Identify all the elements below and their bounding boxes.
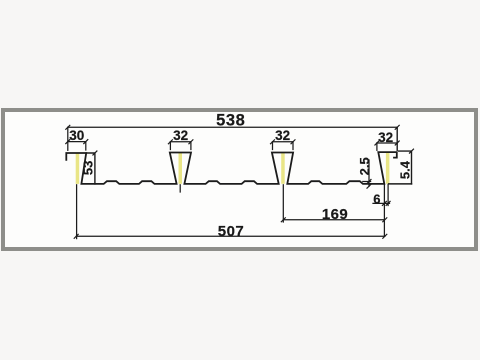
svg-text:507: 507 [218,223,245,240]
svg-text:5.4: 5.4 [397,160,412,179]
label 2.5 (rotated) [357,157,372,175]
dimension 538 line [68,126,397,128]
label 30 [69,128,84,143]
rib R4 yellow centerline [386,153,390,184]
svg-text:30: 30 [69,128,84,143]
photo frame box [1,108,478,252]
label 32 (rib R4) [378,130,393,145]
svg-text:169: 169 [322,206,348,223]
dimension 6 line [373,202,390,204]
label 53 (rotated) [81,161,96,175]
dimension 32 stubs (rib R2) [170,142,191,150]
dimension 30 line [68,141,86,143]
dimension 32 left stub (rib R4) [376,143,378,150]
dimension 538 right extension [396,127,398,150]
dimension 30 right stub [85,142,87,150]
dimension 32 line (rib R3) [273,141,294,143]
label 538 [216,111,245,129]
dimension 2.5 top tick [363,181,371,183]
dimension end ticks [66,125,414,238]
label 6 [373,192,380,207]
dimension 5.4 bracket (extension + vertical dim line) [399,151,412,184]
svg-text:32: 32 [173,128,188,143]
rib R2 yellow centerline [179,153,183,184]
rib R1 yellow centerline [76,154,80,184]
svg-text:538: 538 [216,111,245,129]
dimension 32 line (rib R4) [377,142,397,144]
svg-text:32: 32 [275,128,290,143]
rib R3 centerline extension to 169 [282,185,284,222]
svg-text:2.5: 2.5 [357,157,372,175]
rib R3 yellow centerline [281,153,285,184]
label 32 (rib R3) [275,128,290,143]
dimension 169 line [283,219,384,221]
label 169 [322,206,348,223]
dimension 2.5 vertical line [368,160,370,186]
label 32 (rib R2) [173,128,188,143]
dimension 507 line [76,235,385,237]
svg-text:32: 32 [378,130,393,145]
dimension 6 extension lines [384,185,388,237]
dimension 32 stubs (rib R3) [273,142,294,150]
dimension 32 line (rib R2) [170,141,191,143]
sheet profile outline [66,152,397,184]
svg-text:53: 53 [81,161,96,175]
dimension 538 left extension [67,127,69,150]
dimension 53 bracket (extension + vertical dim line) [86,153,95,184]
rib R2 centerline stub below baseline [179,185,181,192]
rib R4 bottom-right baseline stub [389,183,412,185]
label 5.4 (rotated) [397,160,412,179]
rib R1 centerline extension to 507 [76,185,78,239]
svg-text:6: 6 [373,192,380,207]
label 507 [218,223,245,240]
